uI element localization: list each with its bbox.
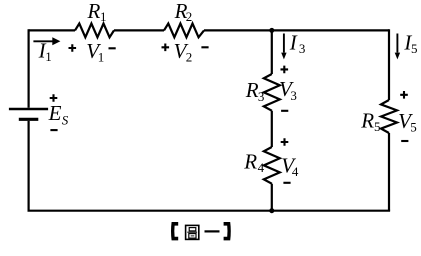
- wire left lower: [28, 121, 30, 211]
- resistor R4: [264, 147, 280, 184]
- wire middle branch between R3 and R4: [271, 111, 273, 147]
- svg-text:2: 2: [186, 9, 193, 24]
- V2 - sign: [201, 46, 208, 48]
- svg-text:1: 1: [45, 49, 52, 64]
- current arrow I1: [33, 40, 53, 42]
- wire left upper: [28, 29, 30, 107]
- wire middle branch upper: [271, 30, 273, 74]
- svg-text:R: R: [360, 109, 374, 133]
- current arrow I3: [283, 34, 285, 53]
- resistor R1: [75, 24, 114, 38]
- V5 + sign: [400, 91, 408, 99]
- svg-text:R: R: [245, 78, 259, 102]
- V3 + sign: [281, 66, 289, 74]
- V1 + sign: [69, 44, 77, 52]
- svg-text:1: 1: [100, 9, 107, 24]
- svg-text:3: 3: [299, 41, 306, 56]
- svg-text:2: 2: [186, 49, 193, 64]
- node junction dot top: [269, 28, 274, 33]
- wire top: [29, 29, 389, 31]
- battery - sign: [50, 129, 57, 131]
- caption bracket left 【: [171, 222, 178, 240]
- resistor R2: [164, 24, 204, 38]
- current arrow I5: [396, 34, 398, 53]
- wire bottom: [28, 210, 391, 212]
- node junction dot bottom: [269, 208, 274, 213]
- V5 - sign: [401, 140, 408, 142]
- battery ES long plate: [9, 108, 48, 111]
- battery + sign: [50, 94, 58, 102]
- V1 - sign: [109, 47, 116, 49]
- svg-text:E: E: [48, 101, 62, 125]
- svg-text:5: 5: [410, 120, 417, 135]
- svg-text:S: S: [62, 112, 69, 127]
- svg-text:5: 5: [411, 41, 418, 56]
- V2 + sign: [162, 44, 170, 52]
- wire right: [388, 29, 390, 210]
- resistor R3: [264, 74, 280, 111]
- svg-text:5: 5: [374, 119, 381, 134]
- V4 - sign: [283, 182, 290, 184]
- V4 + sign: [281, 138, 289, 146]
- caption character 一: [205, 230, 220, 232]
- V3 - sign: [281, 110, 288, 112]
- resistor R5: [381, 100, 397, 133]
- caption character 圖: [186, 225, 199, 239]
- wire middle branch lower: [271, 184, 273, 211]
- svg-text:4: 4: [292, 164, 299, 179]
- battery ES short plate: [19, 118, 39, 121]
- svg-text:4: 4: [258, 160, 265, 175]
- caption bracket right 】: [224, 222, 231, 240]
- svg-text:R: R: [87, 0, 101, 23]
- svg-text:1: 1: [98, 49, 105, 64]
- svg-text:3: 3: [258, 89, 265, 104]
- svg-text:3: 3: [290, 88, 297, 103]
- svg-text:R: R: [243, 150, 257, 174]
- svg-text:I: I: [289, 30, 298, 54]
